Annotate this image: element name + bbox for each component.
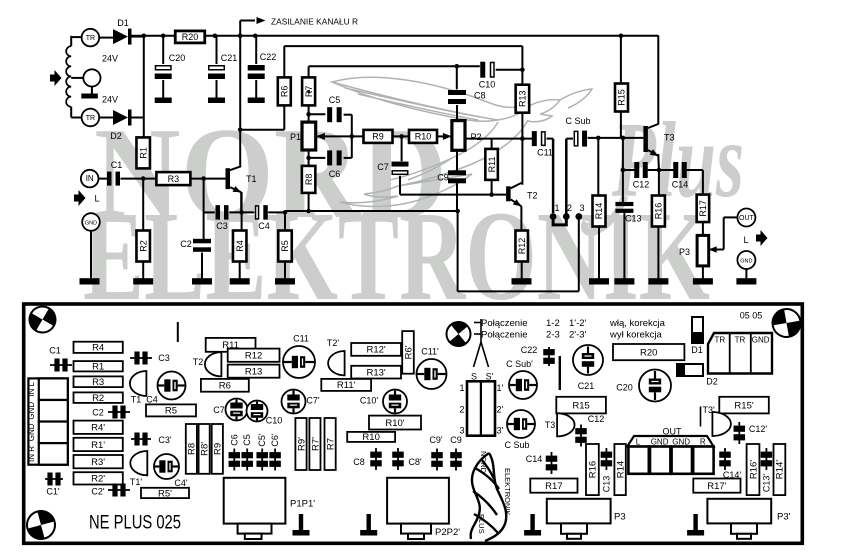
svg-text:3: 3 [579, 203, 584, 213]
svg-text:R12: R12 [517, 238, 527, 255]
svg-text:TR: TR [714, 336, 725, 345]
svg-text:1: 1 [554, 203, 559, 213]
svg-text:GND: GND [752, 336, 770, 345]
svg-text:C21: C21 [221, 53, 238, 63]
svg-text:P3': P3' [777, 512, 791, 523]
svg-text:T2: T2 [193, 357, 204, 367]
svg-text:C9: C9 [450, 435, 462, 445]
svg-text:R7': R7' [310, 437, 321, 451]
svg-text:C8: C8 [353, 457, 365, 467]
svg-text:R9: R9 [372, 132, 384, 142]
svg-text:3: 3 [459, 426, 464, 436]
svg-text:C14: C14 [526, 454, 543, 464]
svg-text:C Sub: C Sub [565, 116, 590, 126]
svg-text:R14': R14' [775, 460, 786, 479]
svg-text:P2P2': P2P2' [435, 527, 460, 538]
svg-text:P3: P3 [679, 247, 690, 257]
svg-text:T1': T1' [130, 477, 143, 487]
svg-text:C10': C10' [360, 396, 379, 406]
svg-text:C5': C5' [257, 433, 267, 447]
svg-text:2'-3': 2'-3' [569, 330, 587, 341]
svg-text:C2: C2 [180, 239, 192, 249]
svg-text:C1: C1 [49, 346, 61, 356]
svg-text:P3: P3 [614, 512, 626, 523]
svg-text:R12: R12 [245, 351, 262, 362]
svg-text:C11': C11' [421, 347, 439, 357]
svg-text:C Sub': C Sub' [506, 359, 533, 369]
svg-text:C14: C14 [672, 180, 689, 190]
svg-text:R12': R12' [366, 345, 385, 356]
svg-text:R7: R7 [325, 438, 336, 450]
svg-text:C4: C4 [258, 221, 270, 231]
svg-text:ZASILANIE KANAŁU R: ZASILANIE KANAŁU R [271, 17, 358, 27]
svg-text:R13: R13 [518, 90, 528, 107]
svg-text:24V: 24V [102, 95, 118, 105]
svg-text:R1': R1' [91, 440, 105, 451]
svg-text:C2': C2' [91, 487, 105, 497]
svg-text:IN L: IN L [27, 381, 36, 396]
svg-text:C8: C8 [474, 91, 486, 101]
svg-text:GND: GND [27, 423, 36, 441]
svg-text:1'-2': 1'-2' [569, 318, 587, 329]
svg-text:R11: R11 [487, 156, 497, 172]
svg-text:C13': C13' [762, 474, 772, 493]
svg-text:C6: C6 [229, 434, 239, 446]
svg-text:C3: C3 [158, 353, 170, 363]
svg-text:2: 2 [567, 203, 572, 213]
svg-text:C6: C6 [329, 169, 341, 179]
svg-text:R16: R16 [588, 461, 599, 478]
svg-text:1-2: 1-2 [546, 318, 560, 329]
svg-text:T2: T2 [527, 191, 538, 201]
svg-text:R8: R8 [304, 174, 314, 186]
svg-text:C7: C7 [377, 162, 389, 172]
svg-text:C10: C10 [479, 80, 496, 90]
svg-text:2': 2' [497, 404, 504, 414]
svg-text:C13: C13 [625, 214, 642, 224]
svg-text:Połączenie: Połączenie [481, 330, 527, 341]
svg-text:1': 1' [497, 383, 504, 393]
svg-text:24V: 24V [102, 54, 118, 64]
svg-text:T3: T3 [664, 133, 675, 143]
svg-text:C4: C4 [146, 395, 158, 405]
svg-text:R20: R20 [182, 32, 199, 42]
svg-text:C9': C9' [429, 435, 443, 445]
svg-text:C1: C1 [111, 160, 123, 170]
svg-text:C7: C7 [213, 405, 225, 415]
svg-text:R5: R5 [280, 240, 290, 252]
svg-text:R10: R10 [362, 432, 379, 443]
svg-text:IN: IN [86, 174, 94, 183]
svg-text:D2: D2 [706, 377, 718, 387]
svg-text:R3: R3 [168, 174, 180, 184]
svg-text:1: 1 [459, 383, 464, 393]
svg-text:C20: C20 [169, 53, 186, 63]
svg-text:R1: R1 [92, 362, 104, 373]
svg-text:GND: GND [740, 259, 752, 265]
svg-text:TR: TR [86, 115, 95, 122]
svg-text:R11': R11' [337, 380, 356, 391]
svg-text:NORD: NORD [479, 451, 488, 474]
svg-text:R3: R3 [92, 377, 104, 388]
svg-text:R4: R4 [92, 343, 104, 354]
svg-text:R20: R20 [640, 347, 657, 358]
svg-text:R2: R2 [92, 393, 104, 404]
svg-text:R3': R3' [91, 457, 105, 468]
svg-text:C12': C12' [749, 424, 768, 434]
svg-text:T1: T1 [131, 395, 142, 405]
svg-text:L: L [743, 235, 748, 245]
svg-text:D1: D1 [117, 18, 129, 28]
svg-text:C12: C12 [588, 414, 605, 424]
svg-text:R13': R13' [366, 367, 385, 378]
svg-text:C11: C11 [537, 148, 553, 158]
svg-text:2: 2 [459, 404, 464, 414]
svg-text:R13: R13 [245, 366, 262, 377]
svg-text:R17: R17 [698, 200, 708, 217]
svg-text:C2: C2 [92, 408, 104, 418]
svg-text:włą, korekcja: włą, korekcja [609, 318, 666, 329]
svg-text:C20: C20 [616, 383, 633, 393]
svg-text:D1: D1 [691, 345, 703, 355]
svg-text:R16: R16 [654, 203, 664, 220]
svg-text:R6: R6 [280, 86, 290, 98]
svg-text:R17: R17 [545, 481, 562, 492]
svg-text:GND: GND [27, 402, 36, 420]
svg-text:3': 3' [497, 426, 504, 436]
svg-text:R15: R15 [572, 400, 589, 411]
svg-text:R9: R9 [213, 443, 224, 455]
svg-text:T2': T2' [327, 338, 340, 348]
svg-text:C3': C3' [158, 435, 172, 445]
svg-text:C Sub: C Sub [504, 440, 529, 450]
svg-text:R1: R1 [138, 147, 148, 159]
svg-text:R15: R15 [617, 89, 627, 106]
svg-text:T3: T3 [545, 420, 556, 430]
svg-text:C5: C5 [329, 95, 341, 105]
svg-text:C6': C6' [270, 433, 280, 447]
svg-text:2-3: 2-3 [546, 330, 560, 341]
svg-text:R14: R14 [594, 203, 604, 220]
svg-text:R6: R6 [219, 381, 231, 392]
svg-text:R10: R10 [415, 132, 432, 142]
svg-text:R2': R2' [91, 474, 105, 485]
svg-text:C7': C7' [306, 396, 320, 406]
svg-text:L: L [94, 194, 99, 204]
svg-text:R9': R9' [296, 437, 307, 451]
svg-text:C4': C4' [174, 478, 188, 488]
svg-text:C3: C3 [216, 221, 228, 231]
svg-text:P2: P2 [471, 132, 482, 142]
svg-text:L: L [636, 438, 641, 447]
svg-text:wył korekcja: wył korekcja [609, 330, 662, 341]
svg-text:R8: R8 [187, 443, 198, 455]
svg-text:TR: TR [735, 336, 746, 345]
svg-text:R10': R10' [385, 418, 404, 429]
svg-text:R8': R8' [199, 442, 210, 456]
svg-text:P1: P1 [290, 132, 301, 142]
svg-text:ELEKTRONIK: ELEKTRONIK [503, 468, 512, 516]
svg-text:C22: C22 [260, 52, 277, 62]
svg-text:C9: C9 [437, 173, 449, 183]
svg-text:C8': C8' [408, 457, 422, 467]
svg-text:C22: C22 [521, 345, 538, 355]
svg-text:GND: GND [651, 438, 669, 447]
svg-text:R4: R4 [235, 240, 245, 252]
svg-text:Połączenie: Połączenie [481, 318, 527, 329]
svg-text:C21: C21 [578, 381, 595, 391]
svg-text:TR: TR [86, 35, 95, 42]
svg-text:R4': R4' [91, 423, 105, 434]
svg-text:D2: D2 [110, 131, 122, 141]
svg-text:R5: R5 [165, 406, 177, 417]
svg-text:C13: C13 [602, 476, 612, 493]
svg-text:OUT: OUT [739, 215, 755, 222]
svg-text:C1': C1' [46, 487, 60, 497]
svg-text:R17': R17' [707, 481, 726, 492]
svg-text:C11: C11 [293, 334, 309, 344]
svg-text:R6': R6' [403, 345, 414, 359]
svg-text:R14: R14 [615, 461, 626, 478]
svg-text:IN R: IN R [27, 446, 36, 462]
svg-text:PLUS: PLUS [477, 514, 486, 534]
svg-text:T1: T1 [246, 174, 257, 184]
svg-text:R5': R5' [158, 488, 172, 499]
svg-text:NE PLUS 025: NE PLUS 025 [89, 513, 181, 534]
svg-text:P1P1': P1P1' [290, 499, 315, 510]
svg-text:05 05: 05 05 [740, 311, 763, 321]
svg-text:C12: C12 [633, 180, 650, 190]
svg-text:R2: R2 [138, 240, 148, 252]
svg-text:GND: GND [85, 221, 97, 227]
svg-text:GND: GND [672, 438, 690, 447]
svg-text:R: R [700, 438, 706, 447]
svg-text:R15': R15' [734, 400, 753, 411]
svg-text:C10: C10 [266, 416, 283, 426]
svg-text:R16': R16' [748, 460, 759, 479]
svg-text:C5: C5 [242, 434, 252, 446]
